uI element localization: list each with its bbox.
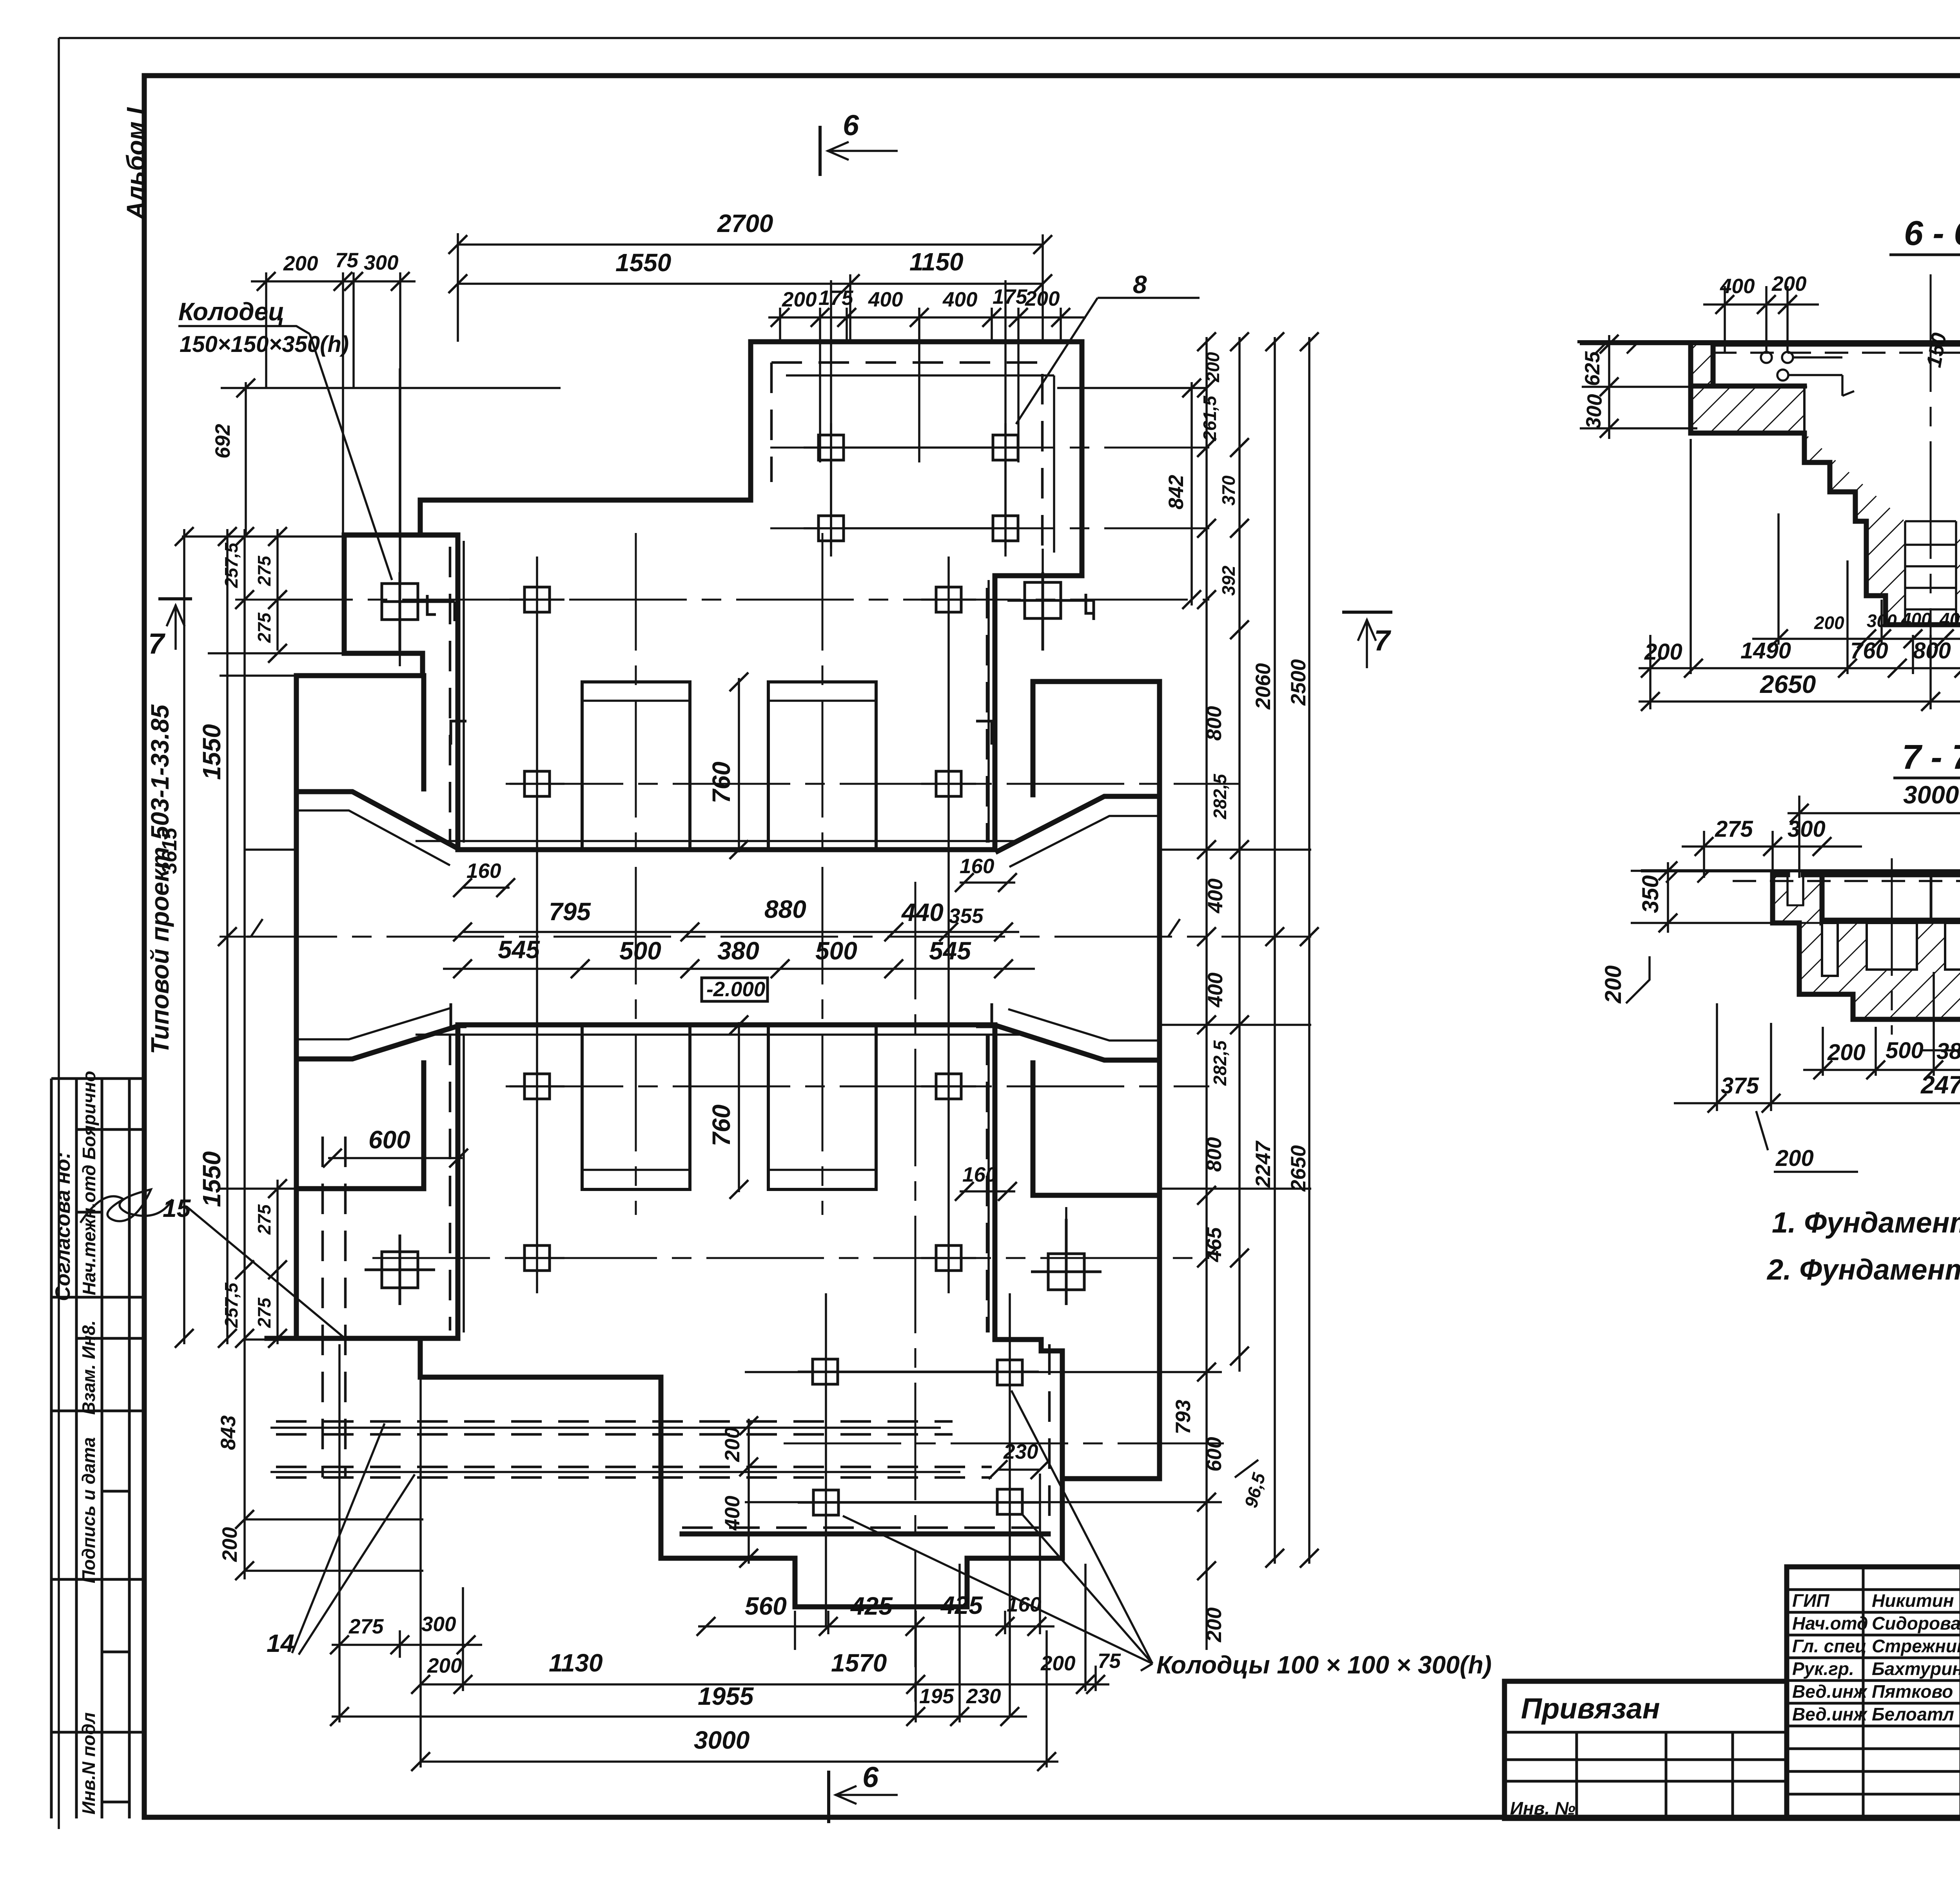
outline: bottom right [995,1025,1062,1558]
svg-text:200: 200 [721,1427,744,1462]
svg-text:2. Фундамент Ф0-5 см. лист КЖ-: 2. Фундамент Ф0-5 см. лист КЖ-34. [1766,1253,1960,1286]
svg-text:200: 200 [1601,965,1626,1004]
extension verticals bottom [1691,439,1960,674]
Привязан box [1504,1681,1787,1818]
svg-text:Альбом I: Альбом I [122,107,150,220]
svg-text:Рук.гр.: Рук.гр. [1792,1659,1854,1679]
svg-text:400: 400 [868,288,903,311]
svg-text:175: 175 [993,285,1028,308]
svg-text:257,5: 257,5 [221,542,241,588]
main box [1787,1567,1960,1818]
svg-text:2247: 2247 [1252,1140,1275,1188]
svg-text:400: 400 [1720,275,1755,298]
top small dims 400 200 [1703,303,1819,306]
svg-text:400: 400 [942,288,977,311]
svg-text:355: 355 [949,905,984,928]
svg-text:261,5: 261,5 [1200,395,1220,441]
hatched trench right stepped wall [1956,433,1960,625]
name table columns [1863,1567,1960,1818]
section mark 7 right [1344,611,1391,614]
axis ticks through small wells [510,423,1039,1503]
svg-text:625: 625 [1581,351,1604,386]
760 vertical dims [738,678,740,1192]
plan internal small dims and labels [323,673,1049,1568]
outline: left notch stub [267,1189,420,1338]
section mark 6 bottom [827,1772,830,1822]
svg-text:1550: 1550 [198,1151,226,1207]
svg-text:1. Фундамент выполнить по полу: 1. Фундамент выполнить по получению обор… [1772,1206,1960,1239]
outline: well niche step left [344,535,423,676]
svg-text:Согласова но:: Согласова но: [51,1152,74,1301]
svg-text:545: 545 [929,937,971,965]
svg-text:8: 8 [1133,270,1147,299]
trench ladder rungs [1905,521,1956,609]
margin table top block rows (Согласовано) [51,1079,144,1297]
dashed verticals left/right [450,547,1049,1528]
anchor slot pins [1788,875,1960,905]
svg-text:2500: 2500 [1287,659,1310,706]
svg-text:7: 7 [148,627,166,660]
svg-text:400: 400 [1901,609,1931,629]
svg-text:200: 200 [1025,287,1060,310]
left funnel walls [297,792,458,1059]
svg-text:1955: 1955 [698,1682,754,1710]
plan grid and axis lines [182,280,1311,1717]
svg-text:545: 545 [498,935,540,964]
svg-text:793: 793 [1172,1400,1195,1434]
400 200 vertical dims bottom left block [748,1419,750,1564]
svg-text:200: 200 [1203,352,1223,383]
svg-text:Взам. Ин8.: Взам. Ин8. [78,1320,99,1415]
svg-text:2700: 2700 [717,209,773,237]
left dim chain 625 300 [1580,335,1807,439]
svg-text:500: 500 [619,937,661,965]
central band edges [458,850,995,1025]
svg-text:282,5: 282,5 [1210,773,1230,819]
svg-text:1570: 1570 [831,1649,887,1677]
hatched left pier [1691,344,1713,386]
hook symbols [427,594,1094,1027]
svg-text:425: 425 [850,1592,893,1620]
svg-text:275: 275 [254,555,274,586]
bottom extension verticals [339,1344,1096,1767]
outline: left of top block with steps [420,342,751,850]
signature squiggle [80,1189,172,1223]
outline: bottom left [420,1025,1062,1607]
svg-text:370: 370 [1218,475,1239,506]
svg-text:230: 230 [966,1685,1001,1708]
svg-text:96,5: 96,5 [1240,1470,1269,1510]
band dim row 1 [463,931,1019,933]
right funnel walls [998,796,1160,1060]
svg-text:300: 300 [421,1613,456,1636]
svg-text:Колодец: Колодец [178,297,285,326]
svg-text:692: 692 [211,424,234,459]
svg-text:392: 392 [1218,566,1239,596]
svg-text:400: 400 [721,1496,744,1531]
svg-text:375: 375 [1721,1073,1759,1099]
svg-text:843: 843 [217,1416,240,1450]
svg-text:350: 350 [1638,875,1663,913]
svg-text:Подпись и дата: Подпись и дата [78,1437,99,1583]
svg-text:ГИП: ГИП [1792,1590,1829,1611]
svg-text:200: 200 [283,252,318,275]
top dims 275 300 230 275 [1682,831,1960,878]
svg-text:75: 75 [335,249,359,272]
svg-text:800: 800 [1203,1137,1226,1172]
leaders and texts on plan [148,109,1492,1822]
svg-text:Вед.инж: Вед.инж [1792,1704,1867,1724]
plan left dimension chains [158,379,287,1580]
top dim 3000 [1788,796,1960,878]
main outline: top block [751,342,1082,850]
svg-text:800: 800 [1913,638,1951,663]
left margin column tables [51,107,174,1818]
svg-text:400: 400 [1939,609,1960,629]
svg-text:Инв. №: Инв. № [1510,1798,1575,1818]
svg-text:Сидорова: Сидорова [1872,1613,1960,1633]
svg-text:842: 842 [1165,475,1188,509]
bottom dim row main [1639,667,1960,669]
bottom dim row small [1752,638,1960,640]
svg-text:600: 600 [368,1126,410,1154]
svg-text:175: 175 [818,286,854,310]
svg-text:150×150×350(h): 150×150×350(h) [180,332,349,357]
svg-text:6: 6 [862,1761,879,1793]
svg-text:Никитин: Никитин [1872,1590,1954,1611]
svg-text:200: 200 [1814,613,1844,633]
svg-text:200: 200 [1827,1040,1866,1065]
svg-text:7: 7 [1374,624,1392,657]
svg-text:Гл. спец: Гл. спец [1792,1636,1867,1656]
margin table verticals [51,1079,129,1818]
svg-text:300: 300 [1788,816,1826,842]
foundation outline [1691,344,1960,625]
floor dashed line [1713,352,1960,354]
svg-text:400: 400 [1204,879,1227,914]
svg-text:-2.000: -2.000 [706,978,765,1001]
right small row 200 175 400 400 175 200 [768,308,1086,462]
svg-text:760: 760 [707,1104,735,1146]
svg-text:Колодцы 100 × 100 × 300(h): Колодцы 100 × 100 × 300(h) [1156,1651,1492,1679]
svg-text:275: 275 [348,1615,384,1638]
svg-text:400: 400 [1204,973,1227,1008]
svg-text:Типовой проект 503-1-33.85: Типовой проект 503-1-33.85 [146,704,174,1054]
anchor verticals to top dims [1725,286,1788,353]
axes verticals 7-7 [1892,858,1960,1035]
svg-text:760: 760 [707,761,735,803]
svg-text:425: 425 [940,1591,983,1619]
svg-text:Нач.отд: Нач.отд [1792,1613,1868,1633]
section mark 6 top [818,127,822,174]
plan top dimension rows [251,209,1086,582]
svg-text:275: 275 [254,1297,274,1328]
svg-text:3000: 3000 [1903,781,1959,809]
svg-text:200: 200 [1771,272,1806,295]
svg-text:560: 560 [745,1592,787,1620]
section mark 7 left [160,597,191,600]
svg-text:300: 300 [364,251,398,274]
left wing rectangle [296,676,424,1189]
svg-text:282,5: 282,5 [1210,1040,1230,1086]
right wing rectangle [1033,682,1160,1195]
svg-text:1490: 1490 [1740,638,1791,663]
svg-text:200: 200 [427,1654,462,1677]
svg-text:2650: 2650 [1287,1145,1310,1192]
extension verticals bottom 7-7 [1823,972,1960,1095]
margin lower block rows [51,1338,144,1802]
big wells 150x150 with crosses [365,572,1102,1305]
svg-text:275: 275 [254,612,274,643]
-2.000 box [702,978,768,1001]
svg-text:800: 800 [1203,706,1226,741]
svg-text:160: 160 [962,1163,997,1186]
white blocks inside lower band [1822,923,1960,976]
svg-text:1150: 1150 [909,248,964,276]
svg-text:275: 275 [254,1204,274,1235]
svg-text:2060: 2060 [1252,663,1275,710]
trench inner verticals [1905,521,1956,625]
outline: right wing lower leg [1062,1195,1160,1479]
svg-text:75: 75 [1098,1650,1121,1673]
svg-text:1550: 1550 [615,248,671,277]
svg-text:1130: 1130 [549,1649,603,1677]
svg-text:500: 500 [1886,1038,1924,1063]
svg-text:1550: 1550 [198,724,226,780]
svg-text:200: 200 [1203,1608,1226,1642]
svg-text:195: 195 [919,1685,955,1708]
svg-text:3615: 3615 [158,827,181,874]
left dims 350 200 [1631,862,1776,933]
svg-text:2470: 2470 [1920,1071,1960,1099]
svg-text:150: 150 [1922,331,1951,369]
svg-text:440: 440 [901,898,944,926]
ground level line 0.000 [1579,340,1960,343]
svg-text:795: 795 [549,897,591,926]
svg-text:600: 600 [1203,1437,1226,1472]
plan bottom dimension rows [330,1344,1121,1771]
svg-text:Вед.инж: Вед.инж [1792,1681,1867,1702]
mid divider [1930,877,1933,920]
plan wells (small squares) [365,423,1102,1515]
title block [1504,1567,1960,1818]
svg-text:Бахтурин: Бахтурин [1872,1659,1960,1679]
svg-text:15: 15 [163,1194,191,1222]
svg-text:6 - 6: 6 - 6 [1904,214,1960,252]
svg-text:3000: 3000 [694,1726,750,1754]
svg-text:200: 200 [1775,1146,1814,1171]
anchor circles in slab [1761,352,1772,363]
svg-text:380: 380 [1936,1039,1960,1064]
bottom dim row total [1639,635,1960,709]
svg-text:275: 275 [1715,816,1753,842]
channel 14 dashed verticals in wing [323,1137,345,1477]
svg-text:465: 465 [1203,1227,1226,1262]
hatched trench left stepped wall [1804,433,1905,625]
svg-text:300: 300 [1582,393,1607,429]
hatched left strip 7-7 [1773,875,1822,923]
svg-text:160: 160 [960,855,994,878]
left small row 200 75 300 [251,272,416,582]
dashed waterproofing top block [771,363,1042,560]
plan right dimension chains [1165,332,1319,1650]
svg-text:Стрежник: Стрежник [1872,1636,1960,1656]
axis break marks on центральная axis [247,919,1180,937]
hatched lower band 7-7 [1799,923,1960,1019]
bottom dims 7-7 row1 [1803,1069,1960,1071]
band dim row 2 [443,968,1035,970]
foundation 7-7 outline [1773,875,1960,1019]
ground line 7-7 [1642,869,1960,872]
svg-text:14: 14 [267,1629,294,1657]
svg-text:230: 230 [1003,1440,1038,1463]
svg-text:7 - 7: 7 - 7 [1902,738,1960,776]
svg-text:500: 500 [815,937,857,965]
bottom dims 7-7 row2 [1674,1003,1960,1111]
svg-text:6: 6 [843,109,859,141]
inner bottom line [682,1532,1048,1537]
svg-text:257,5: 257,5 [221,1282,241,1328]
svg-text:Пятково: Пятково [1872,1681,1953,1702]
name table rows [1787,1590,1960,1794]
svg-text:160: 160 [466,859,501,883]
svg-text:200: 200 [782,288,817,311]
svg-text:380: 380 [717,937,759,965]
svg-text:200: 200 [218,1527,241,1562]
center equipment rectangles [582,682,690,850]
svg-text:Нач.тежн.отд Боярично: Нач.тежн.отд Боярично [79,1071,99,1295]
svg-text:880: 880 [764,895,806,923]
channel 14 dashed horizontals [276,1421,992,1477]
hatched left block [1691,386,1804,433]
svg-text:Белоатл: Белоатл [1872,1704,1954,1724]
svg-text:2650: 2650 [1760,670,1816,698]
svg-text:Инв.N подл: Инв.N подл [78,1712,99,1815]
svg-text:Привязан: Привязан [1521,1692,1660,1725]
trench center axis [1930,274,1932,709]
